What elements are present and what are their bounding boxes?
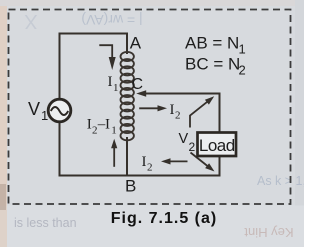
label I1 xyxy=(108,74,119,94)
current arrow I2 (into C) xyxy=(139,105,167,111)
svg-text:I: I xyxy=(87,117,92,133)
svg-text:Fig. 7.1.5 (a): Fig. 7.1.5 (a) xyxy=(111,210,217,227)
source V1 xyxy=(48,99,71,122)
current arrow I1 (elbow) xyxy=(99,45,115,70)
svg-text:2: 2 xyxy=(189,140,196,154)
ratio labels xyxy=(185,34,246,78)
current arrow I2-I1 (up) xyxy=(111,139,117,167)
wire coil bottom stub xyxy=(126,138,128,176)
svg-text:1: 1 xyxy=(113,82,119,94)
svg-text:I: I xyxy=(170,102,175,118)
label I2 top xyxy=(170,102,181,122)
label V1 xyxy=(28,99,48,123)
svg-text:As k > 1, I: As k > 1, I xyxy=(257,174,304,188)
svg-text:C: C xyxy=(132,76,144,93)
svg-text:AB = N: AB = N xyxy=(185,34,239,53)
svg-text:A: A xyxy=(130,34,142,53)
svg-text:V: V xyxy=(179,131,189,147)
dashed enclosure xyxy=(9,10,291,205)
node C arrowhead into tap xyxy=(136,90,146,96)
svg-text:2: 2 xyxy=(92,124,98,136)
svg-text:I: I xyxy=(142,154,147,170)
svg-text:Load: Load xyxy=(199,136,235,155)
voltage V2 arrow lower xyxy=(191,153,215,172)
autotransformer winding AB xyxy=(121,52,134,140)
wire right vertical xyxy=(219,94,221,176)
label V2 xyxy=(179,131,196,154)
current arrow I2 (bottom, leftward) xyxy=(161,158,188,164)
svg-text:I: I xyxy=(105,117,110,133)
svg-text:X: X xyxy=(24,10,37,32)
svg-text:Key Hint: Key Hint xyxy=(244,225,294,240)
label I2-I1 xyxy=(87,117,117,137)
svg-text:1: 1 xyxy=(41,108,48,123)
svg-text:2: 2 xyxy=(239,63,246,78)
svg-text:V: V xyxy=(28,99,40,119)
svg-text:B: B xyxy=(125,177,136,196)
svg-text:| = wr(AV): | = wr(AV) xyxy=(81,12,142,28)
svg-text:I: I xyxy=(108,74,113,90)
wire top (source to A) xyxy=(60,34,128,99)
label I2 bottom xyxy=(142,154,153,174)
svg-text:BC = N: BC = N xyxy=(185,55,240,74)
wire bottom (B run) xyxy=(60,175,220,177)
wire left lower (source to bottom) xyxy=(59,122,61,175)
svg-text:is less than: is less than xyxy=(14,216,77,230)
voltage V2 arrow upper xyxy=(190,96,214,127)
svg-text:2: 2 xyxy=(175,110,181,122)
svg-text:1: 1 xyxy=(111,124,117,136)
wire C to right corner xyxy=(140,93,220,95)
svg-text:2: 2 xyxy=(147,162,153,174)
load box xyxy=(198,133,237,157)
